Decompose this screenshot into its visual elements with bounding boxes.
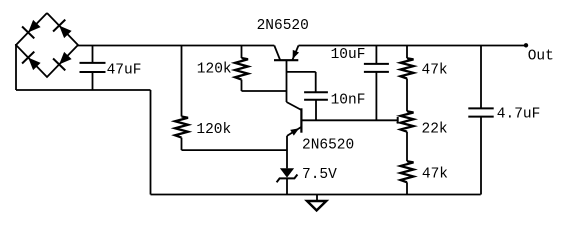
svg-text:47uF: 47uF [107, 62, 142, 78]
svg-text:10uF: 10uF [331, 47, 366, 63]
svg-text:Out: Out [528, 49, 554, 65]
svg-text:120k: 120k [196, 122, 231, 138]
svg-text:120k: 120k [197, 62, 232, 78]
svg-text:22k: 22k [422, 122, 448, 138]
svg-text:2N6520: 2N6520 [302, 137, 354, 153]
svg-text:47k: 47k [422, 167, 448, 183]
svg-text:2N6520: 2N6520 [257, 18, 309, 34]
svg-text:10nF: 10nF [331, 93, 366, 109]
svg-text:4.7uF: 4.7uF [497, 106, 541, 122]
svg-text:47k: 47k [422, 63, 448, 79]
svg-text:7.5V: 7.5V [302, 167, 337, 183]
